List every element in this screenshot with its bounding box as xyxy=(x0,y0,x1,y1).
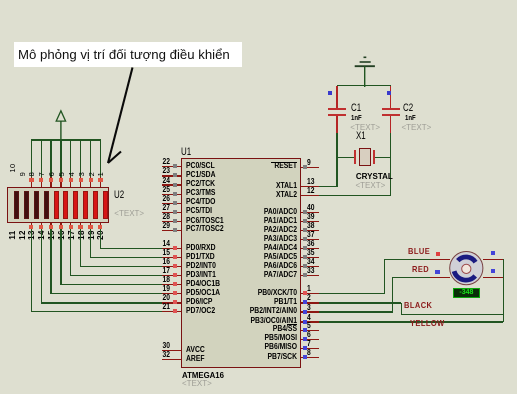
capacitor C1 bottom pin xyxy=(336,116,337,133)
U1 pin 16 PD2/INT0 xyxy=(0,0,517,1)
U1 pin 12 XTAL2 xyxy=(0,0,517,1)
wire bargraph pin 7 to bus xyxy=(41,140,42,177)
label C2 value 1nF xyxy=(405,114,416,123)
U2 top pin 4 xyxy=(0,0,517,1)
wire bargraph pin 20 to U1 PD0 xyxy=(0,0,517,1)
U1 pin 3 PB2/INT2/AIN0 xyxy=(0,0,517,1)
U1 pin 6 PB5/MOSI xyxy=(0,0,517,1)
bargraph display U2 body xyxy=(7,187,108,223)
U1 pin 4 PB3/OC0/AIN1 xyxy=(0,0,517,1)
U2 bottom pin 16 xyxy=(0,0,517,1)
wire bargraph pin 17 to U1 PD3 xyxy=(0,0,517,1)
U1 pin 8 PB7/SCK xyxy=(0,0,517,1)
U1 pin 39 PA1/ADC1 xyxy=(0,0,517,1)
U1 pin 2 PB1/T1 xyxy=(0,0,517,1)
U2 LED segment 5 xyxy=(54,191,59,219)
capacitor C2 top pin xyxy=(390,86,391,109)
U2 bottom pin 17 xyxy=(0,0,517,1)
wire PB3 YELLOW net xyxy=(319,321,504,322)
U1 pin 18 PD4/OC1B xyxy=(0,0,517,1)
U1 pin 28 PC6/TOSC1 xyxy=(0,0,517,1)
label X1 xyxy=(356,130,366,143)
U1 pin 26 PC4/TDO xyxy=(0,0,517,1)
label X1 &lt;TEXT&gt; xyxy=(356,181,386,191)
wire bargraph pin 4 to bus xyxy=(70,140,71,177)
U2 bottom pin 18 xyxy=(0,0,517,1)
wire PB1 to BLACK net xyxy=(0,0,517,1)
label C1 xyxy=(351,102,361,115)
wire crystal right xyxy=(374,157,392,158)
label CRYSTAL xyxy=(356,172,393,182)
label C2 &lt;TEXT&gt; xyxy=(402,123,432,133)
motor position display value -348 xyxy=(453,289,480,297)
motor right top pin stub xyxy=(483,259,503,260)
crystal X1 body xyxy=(359,148,371,167)
U1 pin 33 PA7/ADC7 xyxy=(0,0,517,1)
U2 LED segment 1 xyxy=(14,191,19,219)
wire bargraph pin 5 to bus xyxy=(60,140,61,177)
BLUE pin marker xyxy=(436,252,440,256)
U1 PB4 SS overline xyxy=(287,324,297,325)
U2 top pin 2 xyxy=(0,0,517,1)
U1 pin 22 PC0/SCL xyxy=(0,0,517,1)
U2 LED segment 2 xyxy=(24,191,29,219)
wire C2 to XTAL2 xyxy=(0,0,517,1)
crystal X1 right plate xyxy=(373,150,375,164)
U2 LED segment 7 xyxy=(73,191,78,219)
capacitor C2 plates xyxy=(0,0,517,1)
U1 RESET overline xyxy=(271,162,297,163)
label YELLOW xyxy=(410,318,445,329)
wire PB0 to BLUE motor terminal xyxy=(0,0,517,1)
U2 bottom pin 12 xyxy=(0,0,517,1)
U1 pin 24 PC2/TCK xyxy=(0,0,517,1)
annotation label text xyxy=(18,47,230,62)
ground symbol xyxy=(350,54,380,88)
wire C1 to XTAL1 xyxy=(0,0,517,1)
label C2 xyxy=(403,102,413,115)
U1 pin 36 PA4/ADC4 xyxy=(0,0,517,1)
U1 pin 32 AREF xyxy=(0,0,517,1)
U1 pin 30 AVCC xyxy=(0,0,517,1)
U2 LED segment 6 xyxy=(63,191,68,219)
U2 top pin 10 xyxy=(0,0,517,1)
crystal X1 left plate xyxy=(354,150,356,164)
motor right bottom pin stub xyxy=(483,277,503,278)
U2 bottom pin 20 xyxy=(0,0,517,1)
wire bargraph pin 3 to bus xyxy=(80,140,81,177)
U1 pin 15 PD1/TXD xyxy=(0,0,517,1)
U1 pin 27 PC5/TDI xyxy=(0,0,517,1)
wire bargraph pin 15 to U1 PD5 xyxy=(0,0,517,1)
wire PB2 to RED motor terminal xyxy=(0,0,517,1)
U2 bottom pin 14 xyxy=(0,0,517,1)
U1 pin 29 PC7/TOSC2 xyxy=(0,0,517,1)
U2 LED segment 4 xyxy=(44,191,49,219)
motor position display xyxy=(453,288,480,297)
U2 bottom pin 15 xyxy=(0,0,517,1)
annotation text box xyxy=(14,42,242,68)
U2 top pin 7 xyxy=(0,0,517,1)
U1 pin 9 RESET xyxy=(0,0,517,1)
annotation arrow pointing to bargraph xyxy=(100,60,145,165)
wire bargraph pin 1 to bus xyxy=(100,140,101,177)
motor right bottom pin marker xyxy=(491,269,495,273)
capacitor C1 plates xyxy=(0,0,517,1)
U1 pin 14 PD0/RXD xyxy=(0,0,517,1)
C2 top pin marker xyxy=(387,91,392,96)
wire bargraph pin 2 to bus xyxy=(90,140,91,177)
U1 pin 17 PD3/INT1 xyxy=(0,0,517,1)
U2 top pin 8 xyxy=(0,0,517,1)
U1 pin 25 PC3/TMS xyxy=(0,0,517,1)
wire bargraph pin 6 to bus xyxy=(50,140,51,177)
label U1 xyxy=(181,146,191,159)
label C1 &lt;TEXT&gt; xyxy=(350,123,380,133)
wire XTAL1 to crystal left xyxy=(0,0,517,1)
U1 pin 13 XTAL1 xyxy=(0,0,517,1)
C1 top pin marker xyxy=(328,91,333,96)
U1 pin 38 PA2/ADC2 xyxy=(0,0,517,1)
U2 bottom pin 11 xyxy=(0,0,517,1)
power arrow symbol xyxy=(52,106,70,142)
motor left top pin stub xyxy=(430,259,450,260)
U1 pin 34 PA6/ADC6 xyxy=(0,0,517,1)
U1 pin 21 PD7/OC2 xyxy=(0,0,517,1)
U2 LED segment 8 xyxy=(83,191,88,219)
U1 pin 20 PD6/ICP xyxy=(0,0,517,1)
IC U1 body xyxy=(181,158,302,368)
wire bargraph pin 8 to bus xyxy=(31,140,32,177)
wire motor right common vertical xyxy=(503,259,504,322)
label BLACK xyxy=(404,300,432,311)
label U2 xyxy=(114,189,124,202)
U1 pin 7 PB6/MISO xyxy=(0,0,517,1)
U2 bottom pin 19 xyxy=(0,0,517,1)
wire bargraph pin 13 to U1 PD7 xyxy=(0,0,517,1)
U1 pin 1 PB0/XCK/T0 xyxy=(0,0,517,1)
U2 top pin 3 xyxy=(0,0,517,1)
stepper motor body xyxy=(446,248,487,289)
label U1 &lt;TEXT&gt; xyxy=(182,379,212,389)
motor left bottom pin stub xyxy=(430,277,450,278)
U2 bottom pin 13 xyxy=(0,0,517,1)
U2 top pin 1 xyxy=(0,0,517,1)
capacitor C2 bottom pin xyxy=(390,116,391,133)
U1 pin 40 PA0/ADC0 xyxy=(0,0,517,1)
wire ground bus xyxy=(337,85,391,86)
RED pin marker xyxy=(435,270,439,274)
label RED xyxy=(412,264,429,275)
wire bargraph pin 16 to U1 PD4 xyxy=(0,0,517,1)
label ATMEGA16 xyxy=(182,370,224,381)
motor right top pin marker xyxy=(491,251,495,255)
U2 top pin 6 xyxy=(0,0,517,1)
wire bargraph pin 18 to U1 PD2 xyxy=(0,0,517,1)
wire bargraph pin 19 to U1 PD1 xyxy=(0,0,517,1)
U2 top pin 9 xyxy=(0,0,517,1)
wire bargraph pin 14 to U1 PD6 xyxy=(0,0,517,1)
label U2 &lt;TEXT&gt; xyxy=(114,209,144,219)
U1 pin 35 PA5/ADC5 xyxy=(0,0,517,1)
label BLUE xyxy=(408,246,430,257)
U2 LED segment 9 xyxy=(93,191,98,219)
U1 pin 23 PC1/SDA xyxy=(0,0,517,1)
capacitor C1 top pin xyxy=(336,86,337,109)
U1 pin 19 PD5/OC1A xyxy=(0,0,517,1)
U1 pin 5 PB4/SS xyxy=(0,0,517,1)
U2 LED segment 3 xyxy=(34,191,39,219)
U2 top pin 5 xyxy=(0,0,517,1)
wire bus above bargraph xyxy=(31,139,101,140)
U2 LED segment 10 xyxy=(103,191,108,219)
U1 pin 37 PA3/ADC3 xyxy=(0,0,517,1)
label C1 value 1nF xyxy=(351,114,362,123)
